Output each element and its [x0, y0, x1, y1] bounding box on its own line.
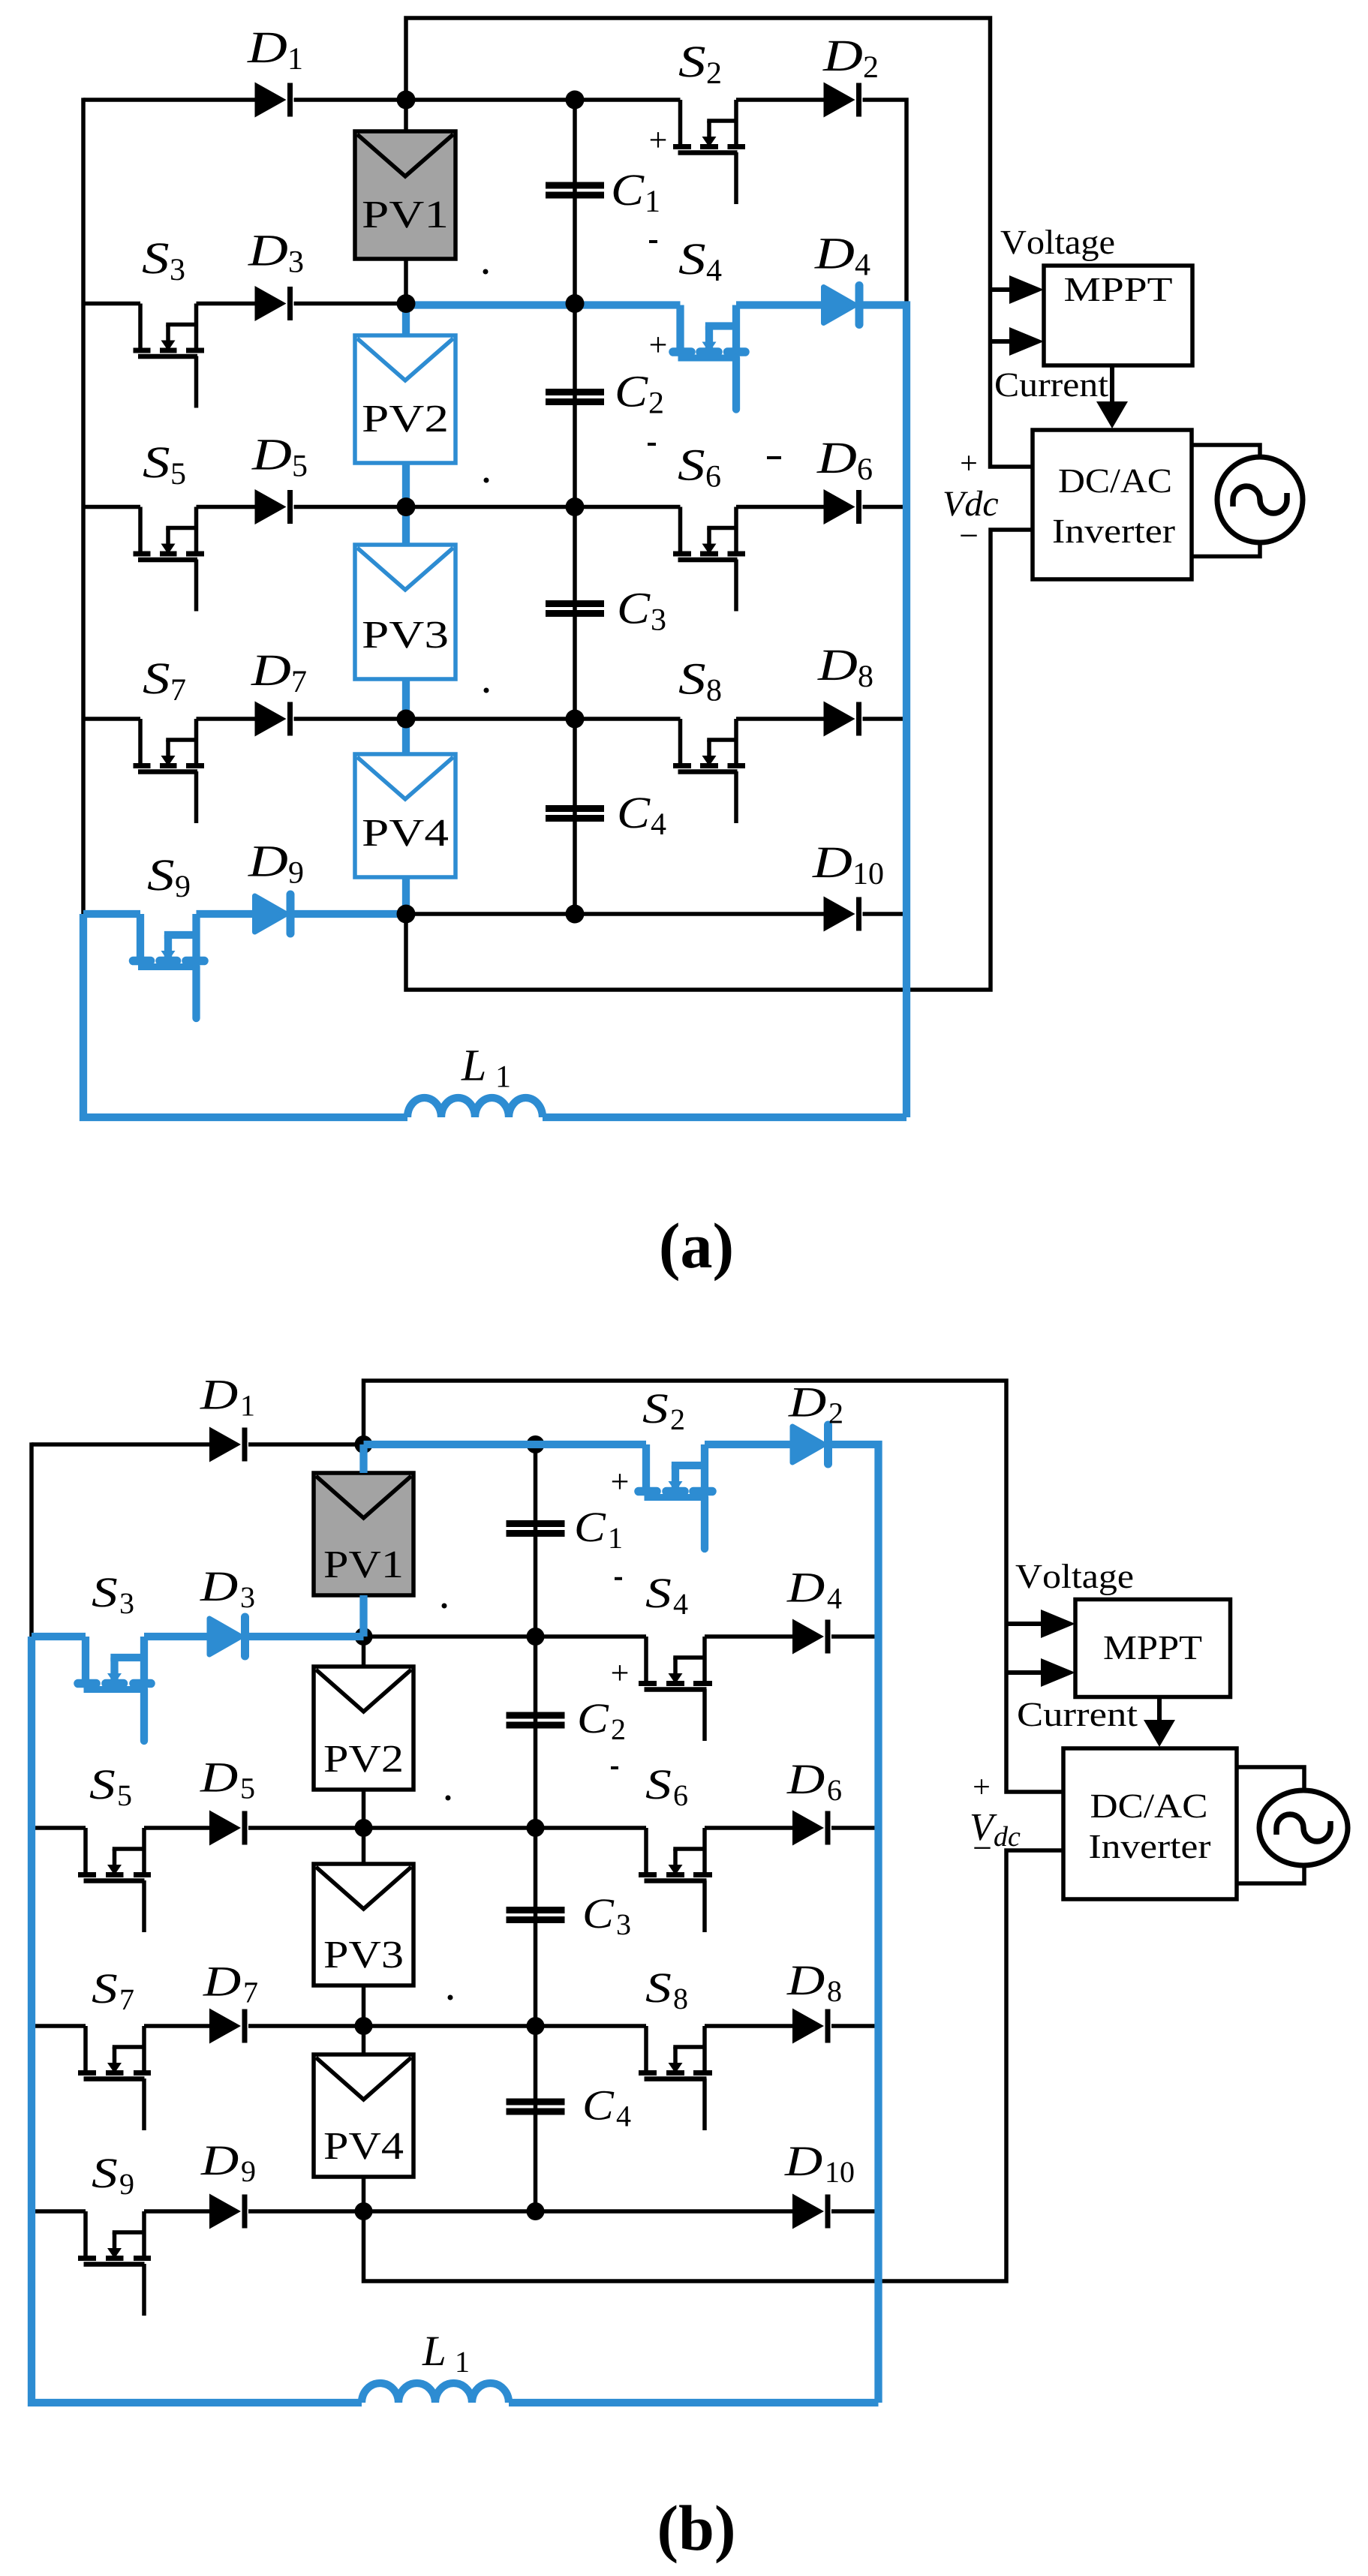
label S7 [143, 663, 170, 693]
wire: PV1 bottom stub to row2 node (a) [404, 259, 408, 304]
label D2 (b) [788, 1388, 825, 1416]
diode D5 [255, 489, 287, 525]
diode D2 [824, 83, 855, 118]
wire: blue row1 segment node to S2 (b) [364, 1441, 647, 1448]
arrow: MPPT output to inverter (a) [1110, 365, 1114, 404]
wire: blue stub PV4 to row5 node (a) [402, 877, 410, 914]
label S5 [143, 447, 170, 477]
block MPPT (b) [1075, 1600, 1231, 1697]
node: C bus row1 (a) [566, 91, 585, 110]
label D9 (b) [200, 2147, 238, 2175]
wire: blue stub PV3 to row4 node (a) [402, 679, 410, 719]
label L1 [461, 1051, 484, 1080]
node: PV string row5 (b) [355, 2202, 373, 2220]
wire: D9 cathode to row5 node blue (a) [294, 910, 407, 918]
wire: D7 cathode through row4 nodes to S8 drain (b) [248, 2024, 646, 2028]
diode D2 (highlighted) (b) [792, 1426, 824, 1462]
PV panel PV2 (highlighted) [355, 335, 455, 463]
inductor L1 (b) [362, 2383, 509, 2403]
wire: row1 left segment with D1 (b) [32, 1442, 209, 1447]
wire: blue stub row4 node to PV4 (a) [402, 719, 410, 754]
node: PV string row5 (a) [397, 905, 416, 924]
wire: S8 source to D8 (a) [736, 717, 824, 721]
node: C bus row5 (a) [566, 905, 585, 924]
wire: D2 cathode to right bus corner (a) [863, 100, 907, 302]
capacitor C4 (b) [507, 2099, 565, 2106]
wire: blue row2 left bus to S3 drain (b) [32, 1633, 86, 1640]
diode D4 (b) [792, 1619, 824, 1655]
node: PV string row3 (a) [397, 497, 416, 516]
capacitor C1 (b) [507, 1520, 565, 1527]
wire: D9 cathode through row5 nodes to D10 (b) [248, 2209, 792, 2214]
transistor S7 (b) [83, 2026, 88, 2073]
label S2 [679, 47, 705, 77]
polarity + of C1 (a) [651, 132, 666, 147]
polarity - of C2 (a) [648, 443, 656, 446]
transistor S5 [138, 507, 143, 555]
label S7 (b) [92, 1974, 117, 2003]
label S2 (b) [643, 1394, 668, 1423]
wire: S3 source to D3 blue (b) [144, 1633, 209, 1640]
diode D5 (b) [209, 1811, 241, 1846]
label D5 [251, 440, 291, 469]
polarity + of C2 (b) [612, 1665, 627, 1680]
caption (b) [660, 2505, 733, 2563]
PV panel PV2 (b) [314, 1667, 413, 1790]
wire: row3 left bus to S5 drain (a) [83, 505, 140, 509]
transistor S3 [138, 304, 143, 351]
stray mark row2 (a) [483, 269, 489, 275]
wire: PV4 bottom to row5 node (b) [362, 2177, 366, 2211]
wire: D1 cathode to PV string node (a) [294, 98, 407, 102]
transistor S9 (b) [83, 2211, 88, 2259]
label S8 (b) [646, 1973, 671, 2002]
wire: row1 left segment with D1 (a) [83, 98, 255, 102]
label S3 (b) [92, 1578, 117, 1607]
label D6 (b) [786, 1766, 824, 1793]
stray mark row2 (b) [442, 1604, 447, 1609]
diode D1 [255, 83, 287, 118]
transistor S5 (b) [83, 1828, 88, 1875]
diode D7 (b) [209, 2009, 241, 2044]
transistor S8 (b) [644, 2026, 648, 2073]
wire: D5 cathode through row3 nodes to S6 drain (a) [294, 505, 681, 509]
wire: inverter to AC source bottom (a) [1192, 543, 1260, 557]
label C2 (b) [579, 1704, 609, 1733]
wire: S7 source to D7 (b) [144, 2024, 209, 2028]
transistor S8 [678, 719, 683, 766]
stray minus mark row3 (a) [767, 456, 781, 459]
node: PV string top (a) [397, 91, 416, 110]
label D2 [822, 41, 862, 71]
wire: blue stub row3 node to PV3 (a) [402, 507, 410, 546]
AC grid source symbol (a) [1217, 457, 1303, 543]
block DC/AC Inverter (b) [1063, 1748, 1237, 1899]
wire: D4 cathode to right bus (b) [831, 1634, 879, 1639]
wire: row3 left bus to S5 drain (b) [32, 1826, 86, 1830]
diode D3 [255, 286, 287, 321]
label S9 (b) [92, 2159, 117, 2187]
wire: D4 cathode to right bus blue corner (a) [863, 305, 907, 1118]
wire: PV3 bottom to row4 node (b) [362, 1985, 366, 2026]
label D7 (b) [203, 1967, 240, 1995]
label D5 (b) [200, 1763, 237, 1791]
wire: S3 source to D3 (a) [197, 302, 255, 306]
wire: row1 node to C-bus to S2 drain (a) [406, 98, 681, 102]
diode D10 [824, 897, 855, 932]
wire: inverter minus return line (b) [364, 1850, 1064, 2281]
node: C bus row2 (a) [566, 294, 585, 313]
wire: PV4 top stub (b) [362, 2026, 366, 2054]
label C4 (b) [585, 2091, 614, 2120]
node: PV string row3 (b) [355, 1819, 373, 1837]
wire: D8 cathode to right bus (b) [831, 2024, 879, 2028]
polarity - of C1 (a) [649, 240, 657, 243]
node: PV string top (b) [355, 1435, 373, 1453]
wire: PV2 bottom to row3 node (b) [362, 1790, 366, 1828]
wire: top line from PV string + to inverter feed (a) [406, 18, 1033, 467]
wire: top line from PV string + to inverter feed (b) [364, 1381, 1064, 1792]
label Current (b) [1018, 1703, 1138, 1727]
wire: D8 cathode to right bus (a) [863, 717, 907, 721]
transistor S9 (highlighted) [137, 914, 144, 961]
node: C bus row4 (b) [527, 2017, 545, 2035]
arrow: current sense into MPPT (b) [1006, 1670, 1045, 1675]
label Voltage (a) [1001, 230, 1114, 261]
label D3 (b) [200, 1573, 237, 1601]
diode D3 (highlighted) (b) [209, 1619, 241, 1655]
label D10 [812, 848, 852, 877]
polarity - of C1 (b) [615, 1577, 622, 1580]
wire: row5 left bus to S9 drain (b) [32, 2209, 86, 2214]
wire: row2 node to C bus to S4 drain (b) [364, 1634, 647, 1639]
label D3 [248, 236, 287, 265]
label C3 (b) [585, 1899, 614, 1928]
wire: D3 cathode to row2 node (a) [294, 302, 407, 306]
wire: blue row5 left bus to S9 drain (a) [83, 910, 140, 918]
stray mark row3 (b) [446, 1796, 451, 1801]
PV panel PV3 (b) [314, 1864, 413, 1985]
label S4 (b) [646, 1579, 671, 1607]
capacitor C3 [546, 600, 604, 607]
diode D8 [824, 702, 855, 737]
caption (a) [662, 1222, 732, 1281]
wire: PV2 stubs and box (b) [362, 1637, 366, 1667]
node: C bus row5 (b) [527, 2202, 545, 2220]
arrow: voltage sense into MPPT (a) [991, 287, 1015, 292]
wire: D3 cathode to row2 node blue (b) [248, 1633, 364, 1640]
PV panel PV4 (highlighted) [355, 754, 455, 877]
label S5 (b) [90, 1770, 115, 1799]
label D10 (b) [784, 2148, 822, 2175]
label D4 [814, 239, 854, 268]
wire: S7 source to D7 (a) [197, 717, 255, 721]
polarity + of C1 (b) [612, 1474, 627, 1489]
diode D10 (b) [792, 2194, 824, 2229]
PV panel PV4 (b) [314, 2054, 413, 2177]
label L1 (b) [422, 2337, 444, 2365]
label Voltage (b) [1016, 1564, 1133, 1595]
wire: S2 source to D2 (a) [736, 98, 824, 102]
inductor L1 [407, 1098, 543, 1117]
wire: blue bottom L1 row right corner to left bus (a) [543, 1114, 906, 1121]
transistor S6 (b) [644, 1828, 648, 1875]
wire: inverter to AC source bottom (b) [1237, 1865, 1304, 1883]
label D8 [817, 651, 857, 680]
node: PV string row4 (b) [355, 2017, 373, 2035]
wire: C bus vertical (b) [534, 1444, 538, 2211]
label Current (a) [996, 374, 1108, 397]
wire: left bus vertical black part (b) [29, 1442, 34, 1637]
wire: S6 source to D6 (b) [705, 1826, 792, 1830]
label C2 [618, 377, 648, 407]
wire: blue stub PV2 to row3 node (a) [402, 463, 410, 507]
wire: row4 left bus to S7 drain (a) [83, 717, 140, 721]
label S3 [143, 243, 169, 273]
wire: blue stub PV1 bottom to row2 node (b) [359, 1595, 367, 1637]
wire: blue bottom right corner to L1 (b) [509, 2399, 879, 2406]
label Vdc with plus and minus (b) [974, 1779, 989, 1794]
diode D7 [255, 702, 287, 737]
label D4 (b) [786, 1574, 824, 1601]
transistor S4 (b) [644, 1637, 648, 1684]
diode D4 (highlighted) [824, 287, 855, 323]
diode D9 (highlighted) [255, 896, 287, 932]
wire: D5 cathode through row3 nodes to S6 drain (b) [248, 1826, 646, 1830]
node: PV string row4 (a) [397, 710, 416, 729]
wire: S6 source to D6 (a) [736, 505, 824, 509]
transistor S7 [138, 719, 143, 766]
wire: D2 cathode to right bus blue (b) [831, 1444, 879, 2403]
wire: D6 cathode to right bus (a) [863, 505, 907, 509]
label C1 [614, 175, 645, 205]
wire: row5 node to C bus to D10 (a) [406, 912, 824, 916]
label D9 [248, 846, 287, 876]
wire: D10 cathode to right bus (a) [863, 912, 907, 916]
wire: blue row2 segment from node to S4 (a) [406, 301, 681, 308]
label S9 [148, 860, 174, 890]
wire: inverter minus return line (a) [406, 530, 1033, 990]
wire: inverter to AC source top (b) [1237, 1767, 1304, 1791]
diode D6 (b) [792, 1811, 824, 1846]
PV panel PV3 (highlighted) [355, 545, 455, 679]
wire: S5 source to D5 (b) [144, 1826, 209, 1830]
capacitor C4 [546, 805, 604, 812]
wire: inverter to AC source top (a) [1192, 445, 1260, 457]
node: C bus row2 (b) [527, 1628, 545, 1646]
label D7 [251, 656, 290, 685]
block DC/AC Inverter (a) [1033, 430, 1192, 579]
diode D8 (b) [792, 2009, 824, 2044]
wire: S4 source to D4 blue (a) [736, 301, 824, 308]
label C1 (b) [576, 1513, 606, 1541]
diode D1 (b) [209, 1427, 241, 1462]
wire: L1 to left bus and up to S9 row blue (a) [83, 914, 407, 1117]
arrow: voltage sense into MPPT (b) [1006, 1622, 1045, 1626]
AC grid source symbol (b) [1259, 1790, 1348, 1865]
arrow: current sense into MPPT (a) [991, 339, 1015, 344]
capacitor C2 [546, 389, 604, 395]
wire: S2 source to D2 blue (b) [705, 1441, 792, 1448]
label S4 [679, 244, 705, 274]
wire: L1 to left bus up to S3 row blue (b) [32, 1637, 362, 2403]
wire: S8 source to D8 (b) [705, 2024, 792, 2028]
stray mark row3 (a) [484, 478, 489, 483]
stray mark row4 (b) [448, 1995, 453, 2000]
transistor S4 (highlighted) [676, 305, 684, 353]
transistor S2 (highlighted) (b) [642, 1444, 650, 1492]
wire: D6 cathode to right bus (b) [831, 1826, 879, 1830]
label S6 [678, 450, 705, 480]
transistor S2 [678, 100, 683, 147]
wire: D10 cathode to right bus (b) [831, 2209, 879, 2214]
label S8 [679, 664, 705, 694]
capacitor C1 [546, 182, 604, 189]
transistor S6 [678, 507, 683, 555]
PV panel PV1 shaded (b) [314, 1473, 413, 1595]
wire: S9 source to D9 (b) [144, 2209, 209, 2214]
wire: C bus vertical (a) [573, 100, 577, 914]
node: C bus row4 (a) [566, 710, 585, 729]
capacitor C3 (b) [507, 1907, 565, 1913]
wire: PV3 top stub (b) [362, 1828, 366, 1864]
wire: left bus row5 junction (b) [29, 2209, 34, 2213]
polarity - of C2 (b) [611, 1766, 618, 1769]
wire: D1 cathode to PV string node (b) [248, 1442, 364, 1447]
wire: S9 source to D9 blue (a) [197, 910, 255, 918]
wire: blue PV string stub node2 to PV2 (a) [402, 304, 410, 336]
label Vdc with plus and minus (a) [961, 455, 976, 470]
diode D6 [824, 489, 855, 525]
label C4 [620, 798, 651, 828]
diode D9 (b) [209, 2194, 241, 2229]
wire: row4 left bus to S7 drain (b) [32, 2024, 86, 2028]
node: C bus row3 (b) [527, 1819, 545, 1837]
label D6 [816, 443, 856, 473]
node: C bus row3 (a) [566, 497, 585, 516]
label D1 [247, 33, 287, 62]
stray mark row4 (a) [484, 688, 489, 693]
wire: D7 cathode through row4 nodes to S8 drain (a) [294, 717, 681, 721]
label S6 (b) [646, 1770, 671, 1799]
label D1 (b) [200, 1381, 237, 1408]
wire: S5 source to D5 (a) [197, 505, 255, 509]
arrow: MPPT output to inverter (b) [1157, 1697, 1162, 1724]
wire: left bus vertical (a) black part [81, 98, 86, 914]
node: C bus row1 (b) [527, 1435, 545, 1453]
label D8 (b) [786, 1967, 824, 1994]
wire: PV1 top stub (a) [404, 100, 408, 131]
PV panel PV1 (shaded) [355, 131, 455, 259]
wire: row2 left bus to S3 drain (a) [83, 302, 140, 306]
capacitor C2 (b) [507, 1712, 565, 1719]
polarity + of C2 (a) [651, 337, 666, 352]
node: PV string row2 (a) [397, 294, 416, 313]
transistor S3 (highlighted) (b) [82, 1637, 89, 1684]
node: PV string row2 (b) [355, 1628, 373, 1646]
wire: S4 source to D4 (b) [705, 1634, 792, 1639]
label C3 [620, 594, 651, 624]
wire: blue stub node1 to PV1 top (b) [359, 1444, 367, 1473]
block MPPT (a) [1044, 266, 1192, 365]
